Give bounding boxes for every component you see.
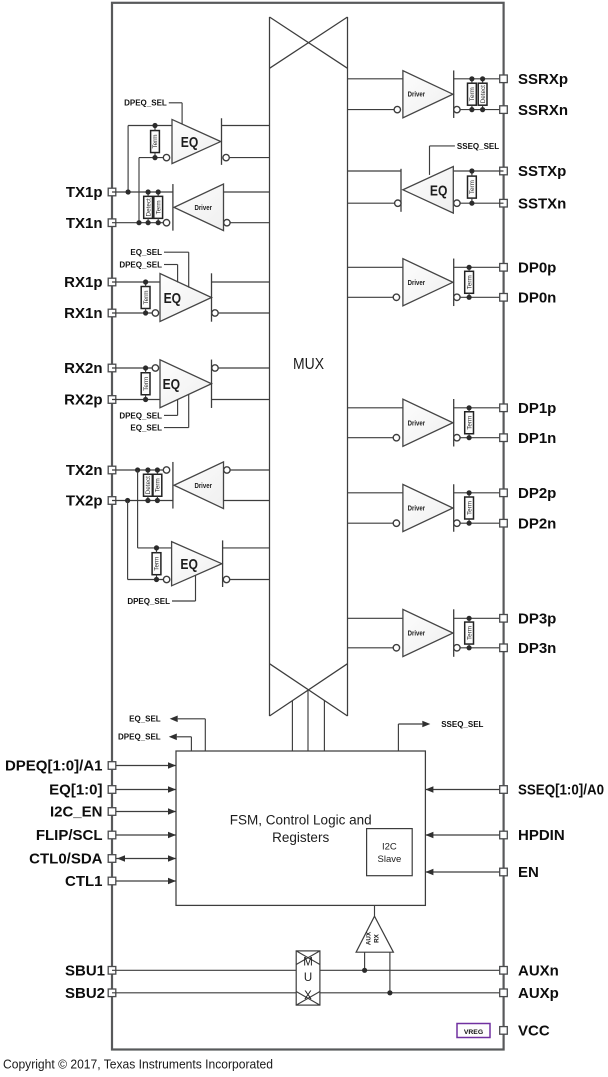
inverter bubble driver A2 input n: [224, 220, 230, 226]
wire SSRX term stub bottom: [471, 105, 473, 109]
resistor TX2 term (Term): [153, 474, 162, 496]
svg-text:CTL0/SDA: CTL0/SDA: [29, 851, 103, 868]
inverter bubble RX1 EQ input n: [152, 310, 158, 316]
amplifier Driver DP0 (Driver): [403, 259, 453, 306]
pin terminal EN: [500, 868, 508, 876]
wire EQ[1:0] to FSM: [116, 789, 176, 791]
svg-text:DPEQ_SEL: DPEQ_SEL: [119, 260, 162, 269]
wire DP2 term stub bottom: [468, 519, 470, 523]
junction SSTX term bottom: [469, 201, 474, 206]
svg-text:EN: EN: [518, 864, 539, 881]
pin terminal SBU2: [108, 989, 116, 997]
svg-text:RX1p: RX1p: [64, 274, 102, 291]
wire DP1 term stub bottom: [468, 434, 470, 438]
wire DP0n line: [460, 296, 503, 298]
junction TX2p EQ tap: [125, 498, 130, 503]
wire EQ A6 out p to MUX: [223, 547, 270, 549]
wire MUX to FSM bus 1: [291, 701, 293, 751]
collector bar DP1 driver output: [453, 399, 455, 447]
wire DP2p line: [454, 492, 504, 494]
svg-text:U: U: [304, 972, 312, 984]
wire TX2n to EQ riser: [137, 470, 139, 548]
wire MUX to DP0 driver n: [348, 296, 394, 298]
junction DP2 term top: [467, 490, 472, 495]
junction TX1p EQ tap: [126, 189, 131, 194]
junction DP2 term bottom: [467, 521, 472, 526]
junction TX2 detect top: [145, 467, 150, 472]
wire MUX to driver A5 n: [230, 469, 269, 471]
wire DPEQ_SEL A3 v: [177, 265, 179, 283]
resistor TX1 EQ term (Term): [151, 131, 160, 153]
inverter bubble DP3 driver output n: [454, 645, 460, 651]
chip boundary box: [112, 3, 504, 1050]
arrowhead FLIP/SCL into FSM: [168, 832, 176, 839]
svg-text:EQ_SEL: EQ_SEL: [130, 424, 162, 433]
junction SSRX detect top: [480, 76, 485, 81]
wire DPEQ_SEL A3 h: [164, 264, 178, 266]
inverter bubble EQ A6 output n: [223, 576, 229, 582]
wire DP2 term stub top: [468, 493, 470, 497]
inverter bubble DP0 driver output n: [454, 294, 460, 300]
svg-text:AUXp: AUXp: [518, 985, 559, 1002]
collector bar EQ A1 output: [221, 118, 223, 165]
arrowhead EQ_SEL output: [170, 716, 178, 723]
pin terminal I2C_EN: [108, 808, 116, 816]
inverter bubble EQ A3 output n: [212, 310, 218, 316]
svg-text:Term: Term: [155, 478, 162, 492]
wire EQ A3 out p to MUX: [212, 281, 270, 283]
wire DP0 term stub top: [468, 267, 470, 271]
pin terminal CTL1: [108, 877, 116, 885]
pin terminal AUXn: [500, 967, 508, 975]
svg-text:RX2n: RX2n: [64, 360, 102, 377]
svg-text:Term: Term: [152, 135, 159, 149]
junction DP0 term top: [467, 265, 472, 270]
pin terminal DP1n: [500, 434, 508, 442]
amplifier Driver A7 (Driver): [403, 71, 453, 118]
wire TX2 EQ term stub top: [156, 548, 158, 553]
svg-text:SSTXn: SSTXn: [518, 195, 566, 212]
pin terminal DP0n: [500, 294, 508, 302]
junction TX1 detect top: [146, 189, 151, 194]
junction RX1 term top: [143, 279, 148, 284]
pin terminal DPEQ[1:0]/A1: [108, 762, 116, 770]
junction TX1n EQ tap: [136, 220, 141, 225]
svg-text:Driver: Driver: [194, 481, 212, 490]
wire EQ A3 out n to MUX: [218, 312, 269, 314]
svg-text:EQ: EQ: [163, 376, 181, 393]
wire DP1 term stub top: [468, 408, 470, 412]
inverter bubble DP3 driver input n: [393, 645, 399, 651]
wire HPDIN to FSM: [425, 834, 499, 836]
pin terminal RX1p: [108, 278, 116, 286]
resistor SSTX term (Term): [468, 176, 477, 198]
resistor TX1 detect (Detect): [144, 196, 153, 218]
junction SSRX detect bottom: [480, 107, 485, 112]
wire EQ_SEL output h: [178, 718, 206, 720]
wire RX2 term stub bottom: [145, 395, 147, 400]
junction SSTX term top: [469, 168, 474, 173]
pin terminal DP3p: [500, 615, 508, 623]
wire TX2n line: [112, 469, 163, 471]
inverter bubble TX1 driver output n: [163, 220, 169, 226]
inverter bubble driver A7 input n: [394, 106, 400, 112]
inverter bubble TX2 EQ input n: [163, 576, 169, 582]
junction RX2 term top: [143, 365, 148, 370]
wire EQ_SEL output v: [204, 719, 206, 751]
wire EQ_SEL A3 h: [164, 251, 189, 253]
wire TX1 detect stub top: [147, 192, 149, 196]
svg-text:AUXn: AUXn: [518, 963, 559, 980]
amplifier EQ A3 (EQ): [160, 274, 212, 322]
inverter bubble DP1 driver output n: [454, 435, 460, 441]
pin terminal HPDIN: [500, 831, 508, 839]
amplifier EQ A6 (EQ): [172, 542, 222, 586]
amplifier EQ A4 (EQ): [160, 360, 212, 408]
svg-text:TX1p: TX1p: [66, 184, 103, 201]
wire RX1n line: [112, 312, 152, 314]
wire SSEQ_SEL A8 v: [429, 146, 431, 175]
wire SSEQ_SEL output v: [397, 724, 399, 751]
wire TX1 EQ term stub bottom: [154, 153, 156, 158]
arrowhead EQ[1:0] into FSM: [168, 786, 176, 793]
wire SSRX term stub top: [471, 79, 473, 83]
collector bar EQ A8 output: [400, 169, 402, 212]
wire SSTXn line: [460, 202, 503, 204]
inverter bubble DP1 driver input n: [393, 435, 399, 441]
collector bar DP2 driver output: [453, 484, 455, 532]
svg-text:DPEQ_SEL: DPEQ_SEL: [119, 411, 162, 420]
svg-text:DP2n: DP2n: [518, 515, 556, 532]
amplifier EQ A8 (EQ): [403, 167, 453, 214]
resistor RX1 term (Term): [141, 287, 150, 309]
inverter bubble TX1 EQ input n: [163, 154, 169, 160]
wire TX1n to EQ riser: [138, 158, 140, 223]
wire TX2p to EQ riser: [127, 501, 129, 580]
collector bar EQ A6 output: [222, 540, 224, 587]
wire TX2 EQ input n: [128, 579, 164, 581]
svg-text:DP3n: DP3n: [518, 640, 556, 657]
svg-text:EQ: EQ: [164, 290, 182, 307]
svg-text:FSM, Control Logic and: FSM, Control Logic and: [230, 813, 372, 828]
resistor TX2 detect (Detect): [144, 474, 153, 496]
svg-text:VREG: VREG: [464, 1029, 483, 1036]
svg-text:TX2n: TX2n: [66, 462, 103, 479]
pin terminal TX2n: [108, 466, 116, 474]
wire DP1n line: [460, 437, 503, 439]
wire MUX to DP0 driver p: [348, 266, 403, 268]
wire SBU1 to aux mux: [112, 969, 296, 971]
wire SSRX detect stub top: [482, 79, 484, 83]
junction TX1 term top: [156, 189, 161, 194]
wire MUX to FSM bus 3: [323, 701, 325, 751]
pin terminal RX2n: [108, 364, 116, 372]
svg-text:Term: Term: [143, 377, 150, 391]
wire TX2 EQ input p: [138, 547, 172, 549]
wire EQ A8 out n to MUX: [348, 202, 395, 204]
junction SSRX term top: [469, 76, 474, 81]
svg-text:Term: Term: [466, 416, 473, 430]
pin terminal SSRXp: [500, 75, 508, 83]
wire RX2p line: [112, 399, 160, 401]
svg-text:SSRXp: SSRXp: [518, 71, 568, 88]
amplifier AUX RX: [356, 916, 393, 952]
pin terminal EQ[1:0]: [108, 786, 116, 794]
svg-text:I2C_EN: I2C_EN: [50, 804, 103, 821]
pin terminal SSEQ[1:0]/A0: [500, 786, 508, 794]
wire EQ A8 out p to MUX: [348, 170, 402, 172]
wire EQ A6 out n to MUX: [230, 579, 270, 581]
arrowhead CTL1 into FSM: [168, 878, 176, 885]
I2C slave block U3: [367, 829, 413, 876]
collector bar TX2 driver output: [172, 462, 174, 509]
wire DPEQ_SEL A6 h: [172, 600, 196, 602]
wire RX2 term stub top: [145, 368, 147, 373]
wire TX2p line: [112, 500, 173, 502]
junction TX1 detect bottom: [146, 220, 151, 225]
wire MUX to DP3 driver p: [348, 617, 403, 619]
amplifier Driver DP2 (Driver): [403, 484, 453, 531]
resistor DP0 term (Term): [465, 271, 474, 293]
svg-text:DPEQ_SEL: DPEQ_SEL: [127, 597, 170, 606]
wire DP0 term stub bottom: [468, 293, 470, 297]
wire MUX to DP2 driver n: [348, 522, 394, 524]
svg-text:RX1n: RX1n: [64, 305, 102, 322]
junction TX2n EQ tap: [135, 467, 140, 472]
inverter bubble TX2 driver output n: [163, 467, 169, 473]
svg-text:I2C: I2C: [382, 842, 397, 853]
wire EQ A4 out n to MUX: [218, 367, 269, 369]
svg-text:DPEQ[1:0]/A1: DPEQ[1:0]/A1: [5, 758, 103, 775]
aux MUX block U4: [296, 951, 320, 1005]
wire TX1p line: [112, 191, 173, 193]
pin terminal TX1n: [108, 219, 116, 227]
svg-text:Term: Term: [466, 275, 473, 289]
svg-text:SSTXp: SSTXp: [518, 163, 566, 180]
svg-text:Driver: Driver: [408, 418, 426, 427]
inverter bubble RX2 EQ input n: [152, 365, 158, 371]
inverter bubble EQ A8 output n: [395, 200, 401, 206]
svg-text:Term: Term: [154, 557, 161, 571]
wire EQ A4 out p to MUX: [212, 399, 270, 401]
svg-text:RX: RX: [374, 933, 381, 943]
wire TX1 EQ term stub top: [154, 126, 156, 131]
junction SSRX term bottom: [469, 107, 474, 112]
amplifier Driver A2 (Driver): [174, 184, 224, 231]
wire TX1 EQ input p: [128, 125, 172, 127]
pin terminal SSRXn: [500, 106, 508, 114]
arrowhead DPEQ_SEL output: [169, 734, 177, 741]
svg-text:SSEQ_SEL: SSEQ_SEL: [441, 720, 483, 729]
wire EQ A1 out n to MUX: [229, 157, 269, 159]
svg-text:SSEQ[1:0]/A0: SSEQ[1:0]/A0: [518, 782, 604, 799]
wire DP3n line: [460, 647, 503, 649]
pin terminal FLIP/SCL: [108, 831, 116, 839]
wire CTL0/SDA to FSM: [116, 858, 176, 860]
svg-text:Detect: Detect: [480, 85, 487, 103]
junction AUX RX tap n: [362, 968, 367, 973]
svg-text:Detect: Detect: [145, 476, 152, 494]
pin terminal DP2n: [500, 519, 508, 527]
collector bar EQ A4 output: [211, 360, 213, 408]
wire TX1p to EQ riser: [127, 126, 129, 193]
wire TX1 EQ input n: [139, 157, 163, 159]
svg-text:EQ: EQ: [180, 556, 198, 573]
wire SSTX term stub bottom: [471, 198, 473, 203]
wire MUX to driver A5 p: [224, 500, 270, 502]
wire SSTXp line: [453, 170, 503, 172]
wire SSEQ_SEL output h: [398, 723, 422, 725]
wire AUX RX leg p: [389, 952, 391, 993]
svg-text:Driver: Driver: [408, 278, 426, 287]
collector bar DP0 driver output: [453, 259, 455, 307]
svg-text:Term: Term: [155, 200, 162, 214]
wire RX2n line: [112, 367, 152, 369]
inverter bubble DP0 driver input n: [393, 294, 399, 300]
collector bar EQ A3 output: [211, 273, 213, 321]
wire DPEQ[1:0]/A1 to FSM: [116, 765, 176, 767]
wire DPEQ_SEL output v: [190, 737, 192, 751]
svg-text:MUX: MUX: [293, 356, 324, 373]
wire EQ A1 out p to MUX: [222, 125, 270, 127]
amplifier EQ A1 (EQ): [172, 119, 221, 163]
wire TX1n line: [112, 222, 163, 224]
svg-text:M: M: [303, 957, 313, 969]
svg-text:TX2p: TX2p: [66, 493, 103, 510]
junction TX2 term bottom: [155, 498, 160, 503]
wire FSM to AUX RX: [374, 905, 376, 916]
svg-text:EQ: EQ: [181, 134, 199, 151]
svg-text:AUX: AUX: [366, 931, 373, 945]
arrowhead I2C_EN into FSM: [168, 808, 176, 815]
wire SBU2 to aux mux: [112, 992, 296, 994]
wire MUX to driver A2 n: [230, 222, 269, 224]
junction DP0 term bottom: [467, 295, 472, 300]
wire DP0p line: [454, 266, 504, 268]
svg-text:Term: Term: [466, 626, 473, 640]
wire MUX to driver A7 n: [348, 109, 395, 111]
svg-text:SBU1: SBU1: [65, 963, 105, 980]
wire SSTX term stub top: [471, 171, 473, 176]
wire DPEQ_SEL A1 h: [169, 102, 182, 104]
wire aux mux to AUXn: [320, 969, 504, 971]
pin terminal DP1p: [500, 404, 508, 412]
junction AUX RX tap p: [387, 990, 392, 995]
svg-text:HPDIN: HPDIN: [518, 827, 565, 844]
wire TX2 term stub top: [156, 470, 158, 474]
wire EN to FSM: [425, 871, 499, 873]
inverter bubble EQ A1 output n: [223, 154, 229, 160]
wire TX2 detect stub bottom: [147, 496, 149, 500]
junction TX1 EQ term bottom: [152, 155, 157, 160]
svg-text:Driver: Driver: [408, 90, 426, 99]
junction RX2 term bottom: [143, 397, 148, 402]
wire RX1p line: [112, 281, 160, 283]
resistor DP1 term (Term): [465, 412, 474, 434]
svg-text:Detect: Detect: [145, 198, 152, 216]
arrowhead SSEQ[1:0]/A0 into FSM: [425, 786, 433, 793]
wire SSRXn line: [460, 109, 503, 111]
svg-text:Driver: Driver: [408, 504, 426, 513]
svg-text:SSEQ_SEL: SSEQ_SEL: [457, 142, 499, 151]
svg-text:Registers: Registers: [272, 830, 329, 845]
pin terminal SSTXn: [500, 199, 508, 207]
wire RX1 term stub bottom: [145, 309, 147, 314]
inverter bubble driver A7 output n: [454, 106, 460, 112]
svg-text:Term: Term: [466, 501, 473, 515]
collector bar TX1 driver output: [172, 184, 174, 231]
junction DP1 term top: [467, 405, 472, 410]
wire FLIP/SCL to FSM: [116, 834, 176, 836]
wire TX2 detect stub top: [147, 470, 149, 474]
wire EQ_SEL A4 h: [164, 427, 189, 429]
arrowhead SSEQ_SEL output: [422, 721, 430, 728]
wire MUX to DP3 driver n: [348, 647, 394, 649]
junction TX2 detect bottom: [145, 498, 150, 503]
wire MUX to DP2 driver p: [348, 492, 403, 494]
svg-text:X: X: [304, 990, 312, 1002]
svg-text:CTL1: CTL1: [65, 873, 103, 890]
pin terminal DP3n: [500, 644, 508, 652]
inverter bubble DP2 driver input n: [393, 520, 399, 526]
wire DPEQ_SEL A4 v: [177, 400, 179, 416]
svg-text:FLIP/SCL: FLIP/SCL: [36, 827, 103, 844]
pin terminal SBU1: [108, 967, 116, 975]
wire TX1 detect stub bottom: [147, 218, 149, 222]
wire DPEQ_SEL A1 v: [181, 103, 183, 124]
pin terminal AUXp: [500, 989, 508, 997]
pin terminal TX1p: [108, 188, 116, 196]
junction TX1 term bottom: [156, 220, 161, 225]
arrowhead HPDIN into FSM: [425, 832, 433, 839]
wire DP3p line: [454, 617, 504, 619]
resistor TX2 EQ term (Term): [152, 553, 161, 575]
pin terminal DP2p: [500, 489, 508, 497]
svg-text:DP0p: DP0p: [518, 260, 556, 277]
junction DP3 term bottom: [467, 645, 472, 650]
pin terminal VCC: [500, 1027, 508, 1035]
pin terminal SSTXp: [500, 167, 508, 175]
wire SSEQ_SEL A8 h: [430, 145, 455, 147]
FSM control logic block U2: [176, 751, 425, 905]
svg-text:EQ: EQ: [430, 183, 448, 200]
inverter bubble SSTX EQ input n: [454, 200, 460, 206]
arrowhead CTL0/SDA into FSM: [168, 855, 176, 862]
wire SSRX detect stub bottom: [482, 105, 484, 109]
junction RX1 term bottom: [143, 310, 148, 315]
wire DPEQ_SEL output h: [177, 736, 192, 738]
wire RX1 term stub top: [145, 282, 147, 287]
svg-text:Driver: Driver: [408, 629, 426, 638]
wire SSEQ[1:0]/A0 to FSM: [425, 789, 499, 791]
wire AUX RX leg n: [364, 952, 366, 970]
collector bar DP3 driver output: [453, 609, 455, 657]
wire MUX to DP1 driver n: [348, 437, 394, 439]
pin terminal DP0p: [500, 264, 508, 272]
wire DP3 term stub bottom: [468, 644, 470, 648]
resistor DP3 term (Term): [465, 622, 474, 644]
wire DPEQ_SEL A6 v: [195, 575, 197, 601]
amplifier Driver A5 (Driver): [174, 462, 224, 509]
svg-text:DP1n: DP1n: [518, 430, 556, 447]
amplifier Driver DP3 (Driver): [403, 609, 453, 656]
inverter bubble EQ A4 output n: [212, 365, 218, 371]
svg-text:SBU2: SBU2: [65, 985, 105, 1002]
wire aux mux to AUXp: [320, 992, 504, 994]
regulator VREG: [457, 1024, 490, 1038]
svg-text:EQ_SEL: EQ_SEL: [129, 715, 161, 724]
wire TX1 term stub top: [157, 192, 159, 196]
